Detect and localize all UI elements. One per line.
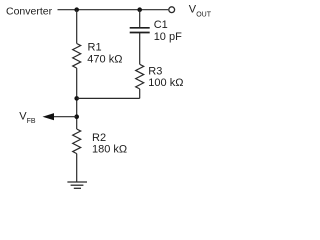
wire VFB horizontal [53, 116, 77, 118]
arrowhead VFB [43, 113, 55, 120]
node junction R1/R3 bottom [74, 96, 79, 101]
wire right vertical bottom (R3 to node wire) [139, 89, 141, 99]
svg-text:100 kΩ: 100 kΩ [148, 77, 183, 89]
terminal VOUT (open circle) [169, 7, 175, 13]
svg-text:R3: R3 [148, 65, 162, 77]
resistor R2 [73, 129, 81, 154]
svg-text:R1: R1 [88, 41, 102, 53]
svg-text:180 kΩ: 180 kΩ [92, 143, 127, 155]
svg-text:Converter: Converter [6, 5, 53, 17]
wire horizontal R3 bottom return [77, 97, 140, 99]
net label VFB [19, 110, 36, 125]
resistor R1 [73, 44, 81, 69]
ground [67, 182, 87, 188]
wire right vertical middle (C1 to R3) [139, 33, 141, 64]
svg-text:470 kΩ: 470 kΩ [87, 53, 122, 65]
wire top horizontal from Converter to VOUT terminal [58, 9, 169, 11]
label R1 value 470 kOhm [87, 41, 122, 65]
wire right vertical top (node to C1) [139, 10, 141, 28]
wire left vertical top (node to R1) [76, 10, 78, 44]
wire left vertical bottom (R2 to ground) [76, 154, 78, 182]
svg-text:R2: R2 [92, 132, 106, 144]
svg-text:OUT: OUT [196, 11, 212, 18]
label C1 value 10 pF [154, 19, 182, 43]
svg-text:C1: C1 [154, 19, 168, 31]
node junction at top of C1 [137, 7, 142, 12]
capacitor C1 [130, 28, 150, 33]
node junction VFB tap [74, 114, 79, 119]
label R2 value 180 kOhm [92, 132, 127, 156]
net label VOUT [189, 4, 212, 19]
wire left vertical middle (R1 bottom through nodes to R2 top) [76, 68, 78, 129]
svg-text:FB: FB [27, 118, 36, 125]
node junction at top of R1 [74, 7, 79, 12]
resistor R3 [136, 64, 144, 89]
svg-text:10 pF: 10 pF [154, 31, 182, 43]
label R3 value 100 kOhm [148, 65, 183, 89]
